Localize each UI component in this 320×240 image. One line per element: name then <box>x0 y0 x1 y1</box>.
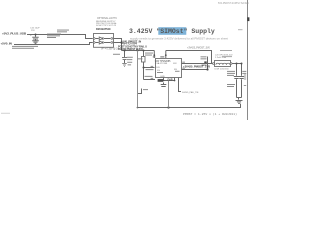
svg-text:+: + <box>30 33 32 37</box>
svg-text:supply needs to generate 3.425: supply needs to generate 3.425V delivere… <box>130 37 228 40</box>
svg-text:3.425V "SIMOst" Supply: 3.425V "SIMOst" Supply <box>129 28 215 35</box>
svg-text:OPTIONAL 2A PTC: OPTIONAL 2A PTC <box>97 17 117 20</box>
svg-text:EN: EN <box>157 67 160 69</box>
svg-text:SW: SW <box>173 63 177 65</box>
svg-text:FEEDS PMOST BUCK: FEEDS PMOST BUCK <box>118 47 143 51</box>
svg-text:GND: GND <box>160 76 165 78</box>
svg-text:+3V425_PMOST_5V0: +3V425_PMOST_5V0 <box>187 48 211 50</box>
svg-text:+5V0_IN: +5V0_IN <box>1 41 13 45</box>
svg-text:+5V2_PLUS_USB: +5V2_PLUS_USB <box>2 31 27 35</box>
svg-text:SGND_PAD_TIE: SGND_PAD_TIE <box>182 91 199 94</box>
svg-text:25V: 25V <box>31 30 35 32</box>
svg-text:D20 BAT54C: D20 BAT54C <box>96 27 111 31</box>
svg-text:SCHOTTKY SOT-23: SCHOTTKY SOT-23 <box>96 25 117 27</box>
svg-text:PMOST = 1.25V x (1 + R20/R21): PMOST = 1.25V x (1 + R20/R21) <box>183 112 238 116</box>
svg-text:VF = 0.35V @ 2A: VF = 0.35V @ 2A <box>101 48 119 51</box>
svg-text:FB: FB <box>174 69 177 71</box>
svg-text:DCR 10mOhm: DCR 10mOhm <box>215 69 230 71</box>
svg-text:SS: SS <box>157 70 160 72</box>
svg-text:5V0-PMOST-SUPPLY.SchDoc: 5V0-PMOST-SUPPLY.SchDoc <box>218 3 250 5</box>
svg-text:1.5A 17V BK: 1.5A 17V BK <box>155 62 168 65</box>
